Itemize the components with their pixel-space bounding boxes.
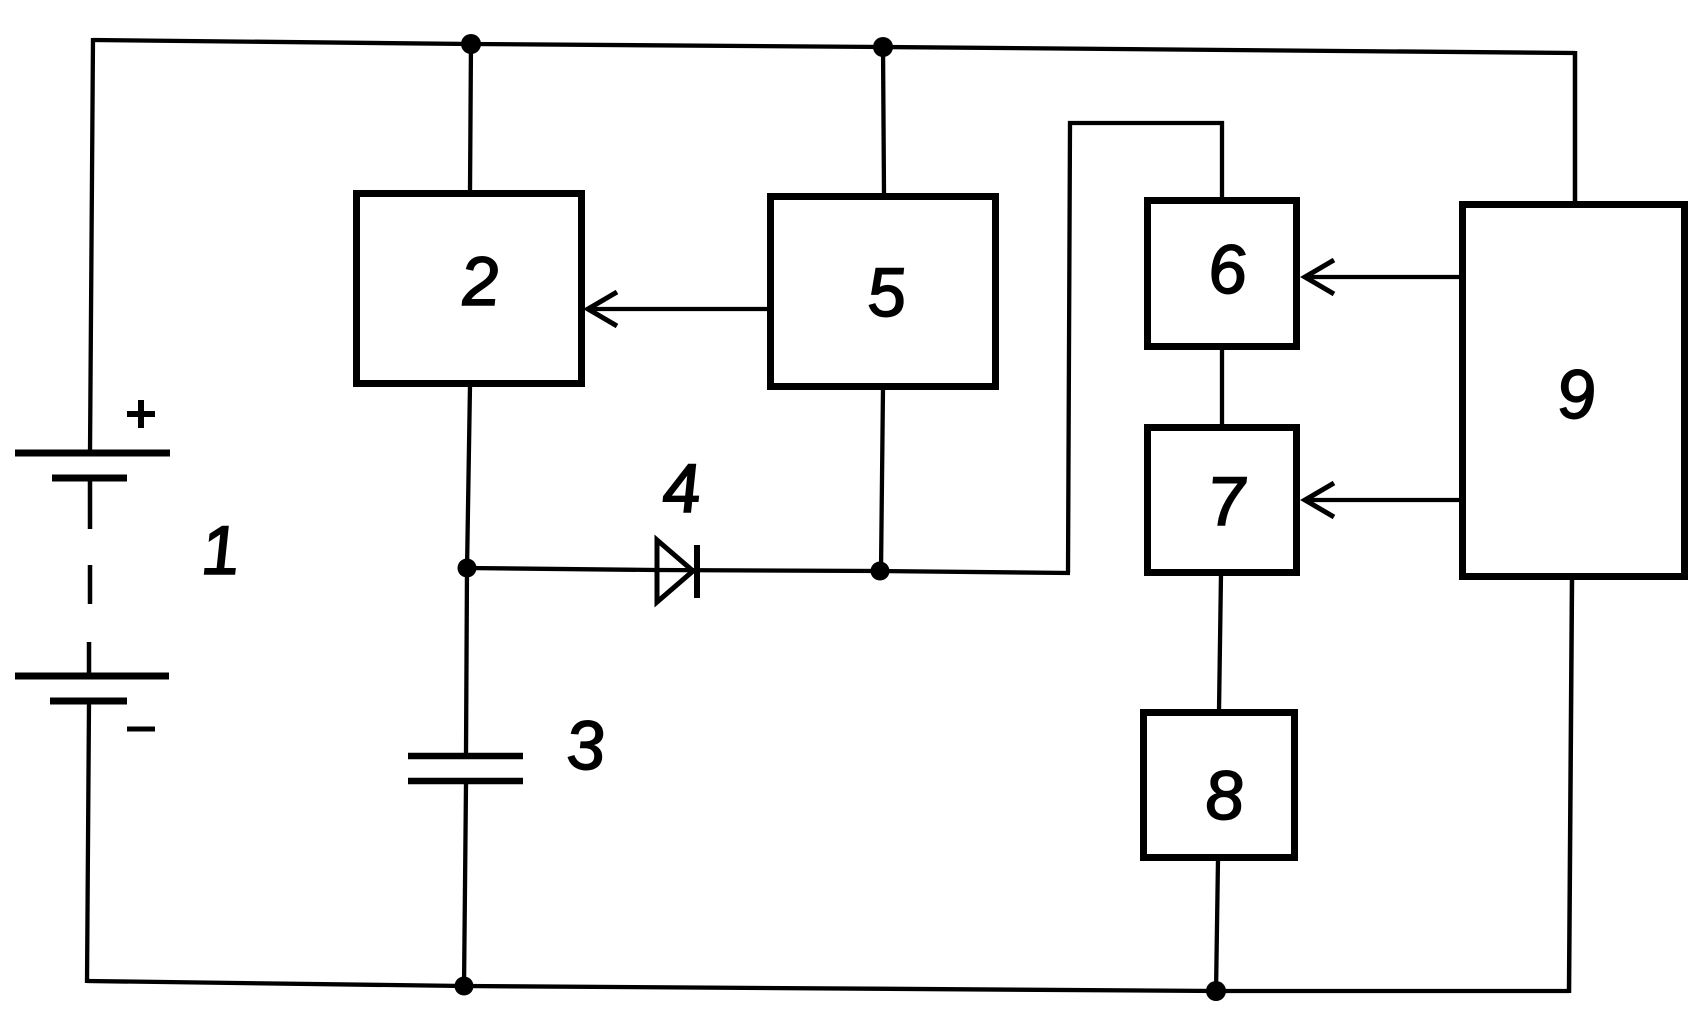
wire arrow block 9 to block 7 [1306,498,1460,502]
svg-text:2: 2 [456,242,502,320]
junction dot: top bus to block 5 [873,37,893,57]
block 6 [1148,201,1297,347]
battery 1 positive plate long [15,450,170,457]
wire top bus to block 2 [470,42,471,192]
wire node A to diode to node B horizontal [467,568,1070,573]
wire node A to capacitor 3 [466,568,467,754]
wire arrow block 9 to block 6 [1306,275,1460,279]
wire right top vertical into block 9 [1573,51,1578,204]
junction dot: node A (block 2 / capacitor 3 / diode 4) [458,559,477,578]
capacitor C3 bottom plate [408,778,523,785]
diode D4 cathode bar [694,545,700,598]
wire arrow block 5 to block 2 [589,307,768,311]
battery minus sign [127,727,155,732]
svg-text:5: 5 [863,253,909,331]
junction dot: bottom bus to capacitor 3 [455,977,474,996]
block 5 [771,197,996,387]
svg-text:3: 3 [562,706,607,784]
block 9 [1463,205,1685,577]
wire block 2 to node A [467,385,470,570]
battery 1 lower cell short plate [50,698,127,705]
capacitor C3 top plate [408,753,523,760]
battery 1 inter-cell stub lower [87,642,92,676]
svg-text:6: 6 [1204,230,1250,308]
arrowhead into block 7 [1305,483,1334,517]
svg-text:4: 4 [658,449,703,527]
wire capacitor 3 to bottom bus [464,784,466,988]
wire block 5 to node B [881,388,883,571]
wire top bus [93,40,1575,53]
wire node B up and over to block 6 [1068,123,1222,573]
battery 1 positive cell short plate [52,475,127,482]
block 7 [1148,428,1297,573]
wire left vertical lower [87,703,89,983]
wire block 7 to block 8 [1219,574,1221,711]
junction dot: top bus to block 2 [461,34,481,54]
svg-text:8: 8 [1201,756,1247,834]
junction dot: node B (block 5 / diode 4 / to block 6) [871,562,890,581]
diode D4 triangle [657,540,693,602]
block 8 [1144,713,1295,858]
block 2 [357,194,582,384]
battery plus sign [127,400,155,428]
arrowhead into block 2 [588,292,617,326]
arrowhead into block 6 [1305,260,1334,294]
wire top bus to block 5 [883,45,884,195]
battery 1 lower cell long plate [15,673,169,680]
wire block 6 to block 7 [1220,348,1224,426]
svg-text:1: 1 [197,511,242,589]
wire right bottom vertical from block 9 [1569,578,1572,993]
wire bottom bus [87,981,1569,991]
wire left vertical upper [90,38,93,453]
wire block 8 to bottom bus [1216,859,1218,993]
battery 1 inter-cell stub upper [88,481,93,529]
svg-text:9: 9 [1553,355,1598,433]
junction dot: bottom bus to block 8 [1206,981,1226,1001]
battery 1 inter-cell dash [88,565,93,604]
